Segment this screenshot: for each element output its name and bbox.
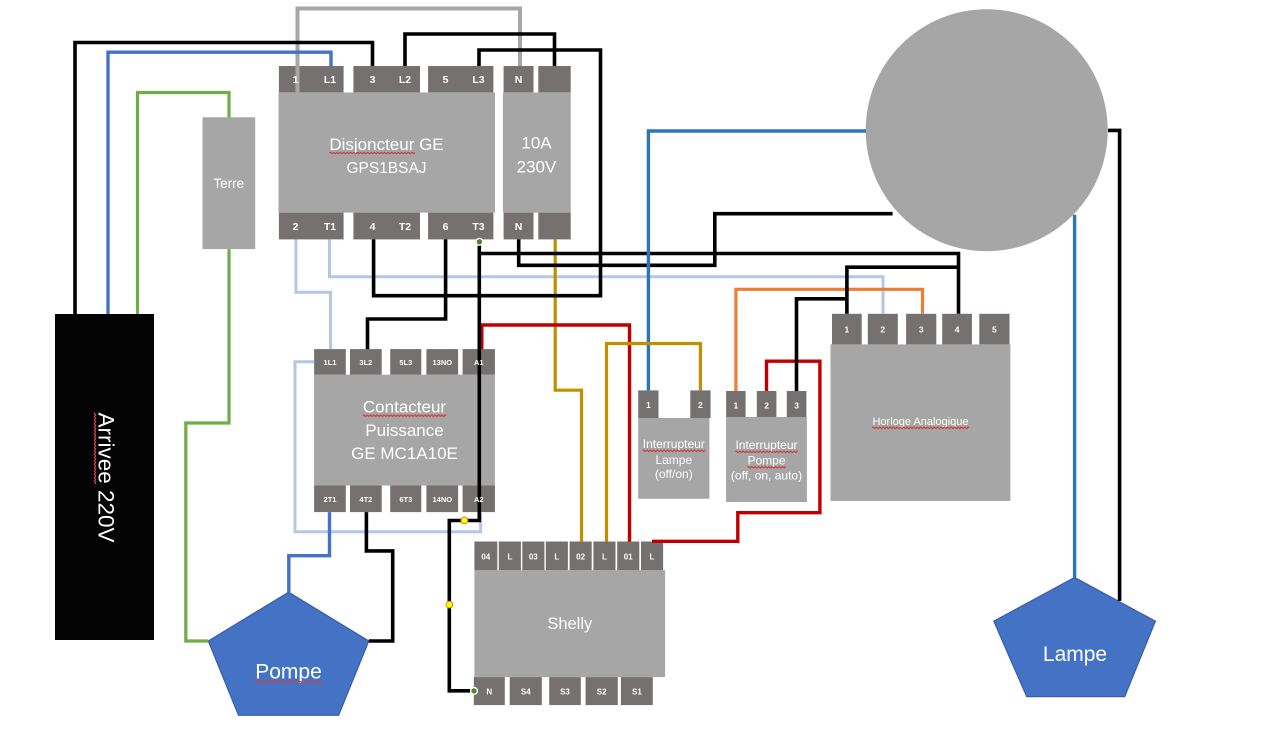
svg-text:1: 1: [293, 74, 299, 86]
svg-text:L: L: [554, 553, 559, 562]
svg-text:Interrupteur: Interrupteur: [735, 438, 797, 452]
svg-text:Horloge Analogique: Horloge Analogique: [872, 416, 968, 428]
svg-text:Puissance: Puissance: [365, 421, 443, 440]
svg-text:S3: S3: [560, 688, 570, 697]
svg-text:L2: L2: [399, 74, 411, 86]
svg-text:5: 5: [992, 325, 997, 335]
svg-text:02: 02: [576, 553, 585, 562]
svg-text:Interrupteur: Interrupteur: [643, 437, 705, 451]
svg-text:GE MC1A10E: GE MC1A10E: [351, 444, 458, 463]
svg-text:Disjoncteur GE: Disjoncteur GE: [329, 135, 443, 154]
svg-text:14NO: 14NO: [433, 495, 453, 504]
svg-text:Lampe: Lampe: [655, 453, 692, 467]
svg-text:L: L: [602, 553, 607, 562]
svg-text:1L1: 1L1: [324, 358, 337, 367]
svg-text:S1: S1: [632, 688, 642, 697]
svg-text:L: L: [507, 553, 512, 562]
svg-text:A2: A2: [474, 495, 484, 504]
svg-text:Lampe: Lampe: [1043, 643, 1107, 666]
svg-text:GPS1BSAJ: GPS1BSAJ: [346, 160, 426, 177]
svg-text:3L2: 3L2: [359, 358, 372, 367]
svg-text:Pompe: Pompe: [747, 454, 785, 468]
svg-text:6: 6: [443, 221, 449, 233]
svg-text:2: 2: [698, 400, 703, 410]
svg-text:1: 1: [734, 401, 739, 411]
svg-text:(off/on): (off/on): [655, 467, 693, 481]
svg-text:L3: L3: [472, 74, 484, 86]
svg-text:S2: S2: [597, 688, 607, 697]
svg-text:L1: L1: [324, 74, 336, 86]
svg-text:Contacteur: Contacteur: [363, 398, 446, 417]
svg-text:1: 1: [845, 325, 850, 335]
svg-text:13NO: 13NO: [433, 358, 453, 367]
svg-text:(off, on, auto): (off, on, auto): [731, 469, 802, 483]
svg-text:1: 1: [646, 400, 651, 410]
svg-text:4: 4: [955, 325, 960, 335]
svg-text:03: 03: [529, 553, 538, 562]
svg-text:2: 2: [764, 401, 769, 411]
svg-text:L: L: [650, 553, 655, 562]
svg-text:4T2: 4T2: [359, 495, 372, 504]
svg-text:5L3: 5L3: [399, 358, 412, 367]
svg-text:3: 3: [794, 401, 799, 411]
svg-text:3: 3: [919, 325, 924, 335]
svg-text:4: 4: [370, 221, 376, 233]
svg-text:3: 3: [370, 74, 376, 86]
svg-text:S4: S4: [521, 688, 531, 697]
svg-text:2: 2: [880, 325, 885, 335]
svg-text:N: N: [515, 74, 523, 86]
svg-text:Shelly: Shelly: [547, 615, 593, 633]
svg-text:Pompe: Pompe: [255, 661, 322, 684]
svg-text:T3: T3: [472, 221, 484, 233]
svg-text:T1: T1: [324, 221, 336, 233]
svg-text:04: 04: [481, 553, 490, 562]
svg-text:6T3: 6T3: [399, 495, 412, 504]
svg-text:N: N: [486, 688, 492, 697]
svg-text:2T1: 2T1: [324, 495, 337, 504]
svg-text:10A: 10A: [521, 134, 552, 153]
svg-text:Arrivee 220V: Arrivee 220V: [94, 412, 119, 542]
svg-text:T2: T2: [399, 221, 411, 233]
svg-text:2: 2: [293, 221, 299, 233]
svg-text:230V: 230V: [517, 158, 557, 177]
svg-text:5: 5: [443, 74, 449, 86]
svg-text:01: 01: [624, 553, 633, 562]
svg-text:A1: A1: [474, 358, 484, 367]
svg-text:Terre: Terre: [213, 176, 244, 191]
svg-text:N: N: [515, 221, 523, 233]
